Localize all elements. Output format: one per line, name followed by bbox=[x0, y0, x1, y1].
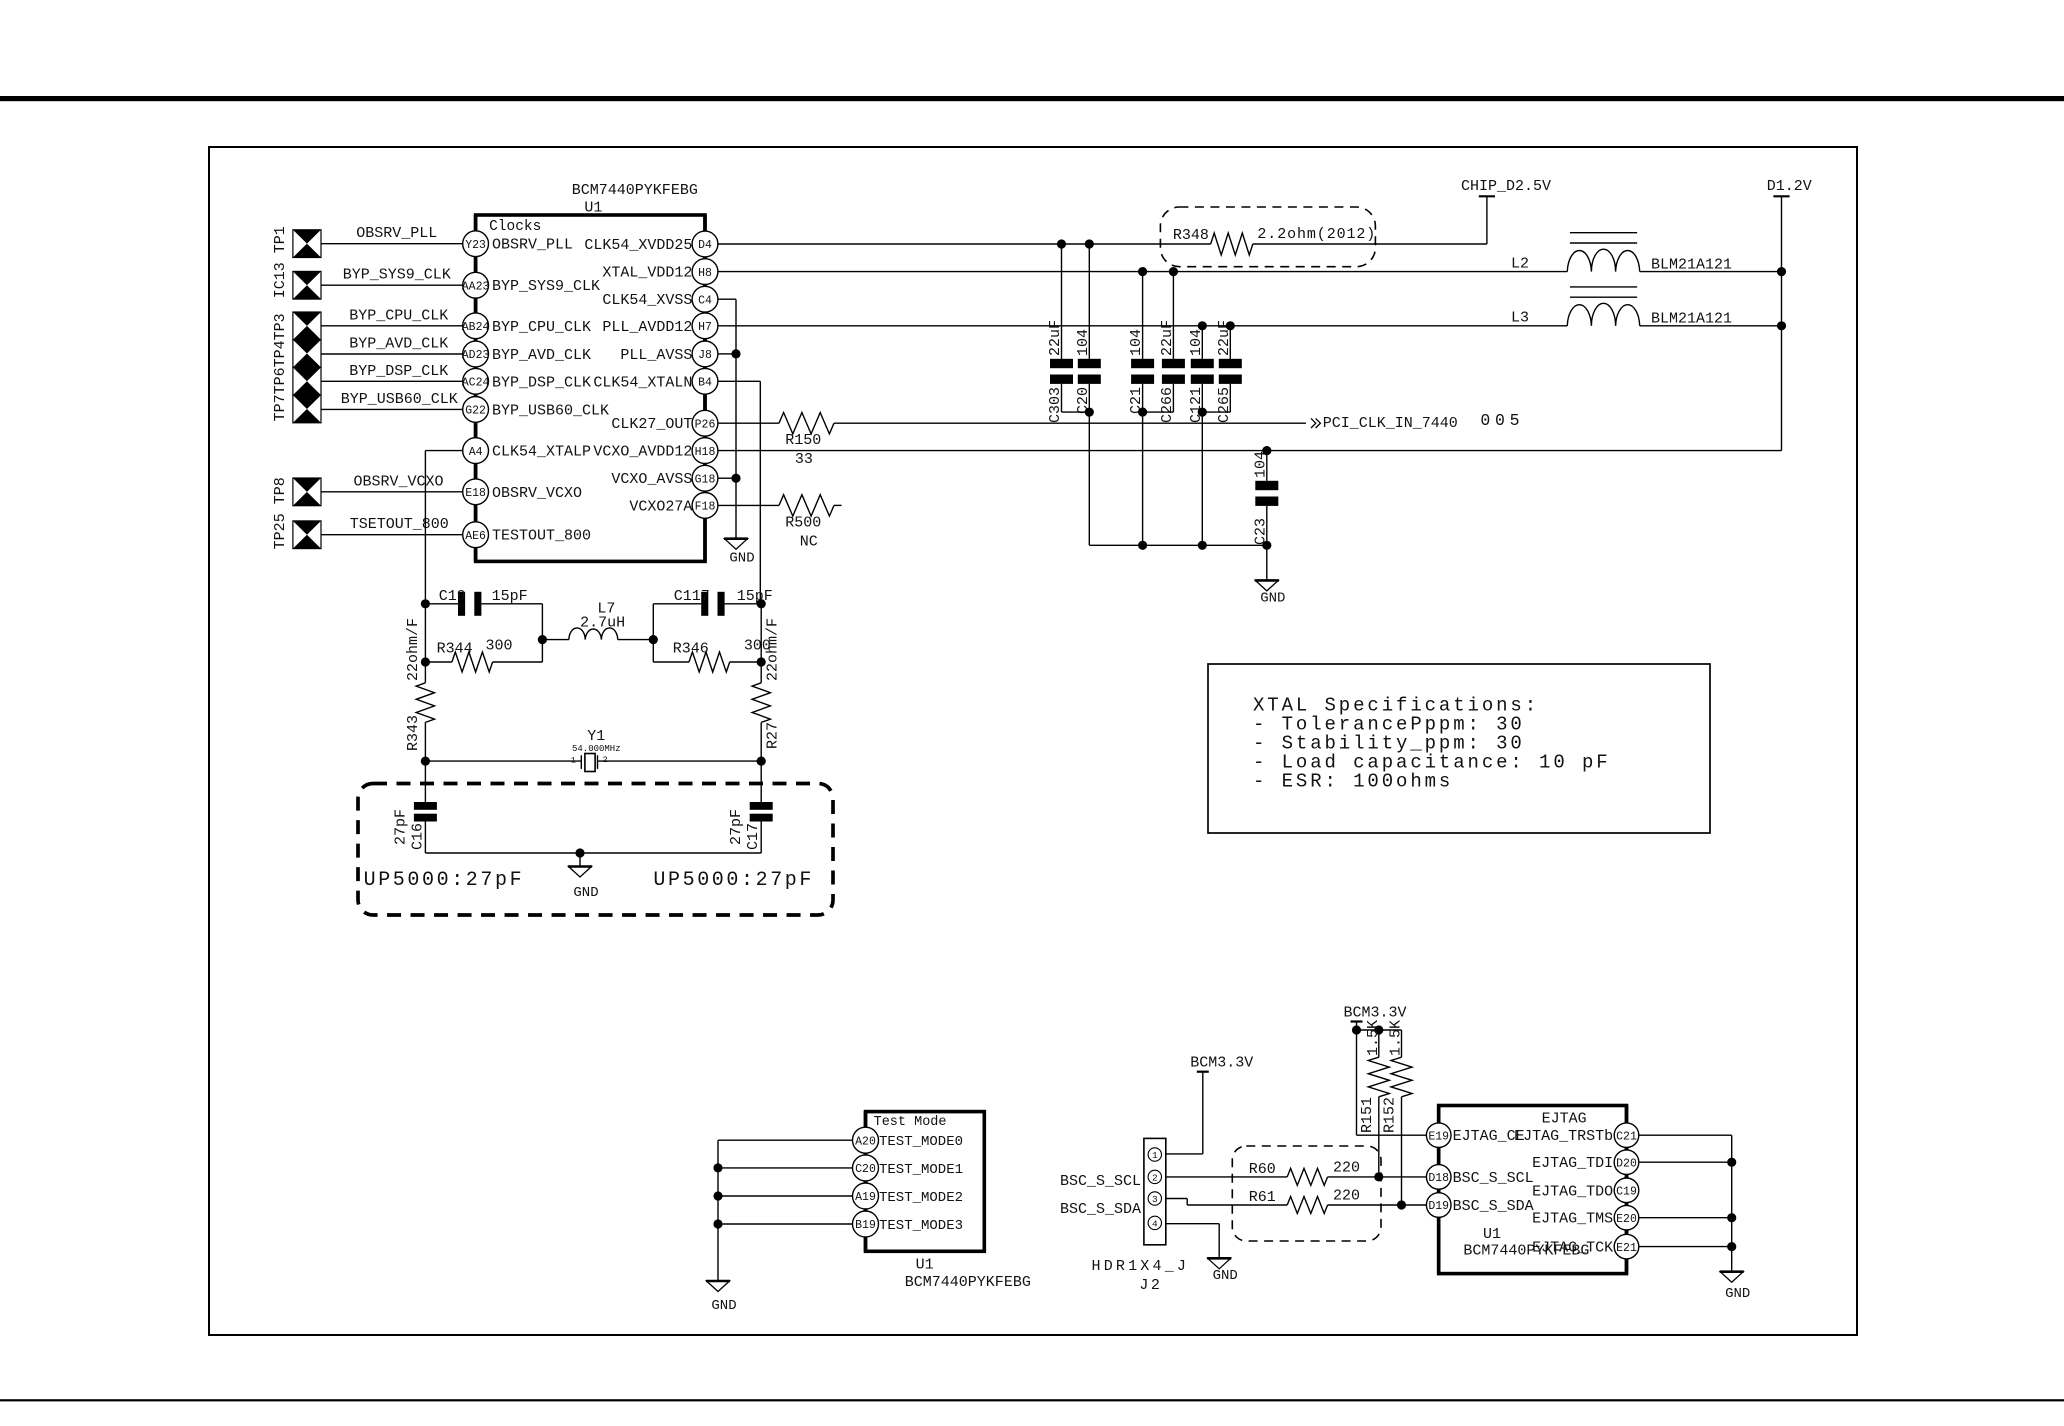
svg-text:1.5K: 1.5K bbox=[1388, 1020, 1405, 1056]
svg-text:E21: E21 bbox=[1616, 1242, 1637, 1255]
svg-text:VCXO_AVSS: VCXO_AVSS bbox=[611, 471, 692, 488]
svg-text:BYP_AVD_CLK: BYP_AVD_CLK bbox=[492, 347, 591, 364]
svg-text:104: 104 bbox=[1075, 329, 1092, 356]
wire R61 to D19 bbox=[1328, 1204, 1427, 1206]
wire BCM3.3V to E19 bbox=[1357, 1134, 1427, 1136]
junction C121/C265 bottoms bbox=[1198, 408, 1207, 417]
svg-text:005: 005 bbox=[1480, 411, 1524, 430]
svg-text:TP7TP6TP4TP3: TP7TP6TP4TP3 bbox=[272, 313, 289, 421]
svg-text:L3: L3 bbox=[1511, 310, 1529, 327]
U1 pin C21 EJTAG_TRSTb bbox=[1514, 1123, 1639, 1148]
ground symbol EJTAG bbox=[1720, 1272, 1751, 1302]
U1 pin A19 TEST_MODE2 bbox=[853, 1183, 964, 1209]
svg-text:BYP_CPU_CLK: BYP_CPU_CLK bbox=[492, 319, 591, 336]
U1 pin G18 VCXO_AVSS bbox=[611, 465, 718, 491]
svg-text:BCM3.3V: BCM3.3V bbox=[1190, 1055, 1253, 1072]
svg-text:OBSRV_VCXO: OBSRV_VCXO bbox=[492, 485, 582, 502]
U1 pin C20 TEST_MODE1 bbox=[853, 1155, 964, 1181]
U1 pin A20 TEST_MODE0 bbox=[853, 1127, 964, 1153]
J2 pin 3 bbox=[1148, 1192, 1161, 1205]
svg-text:GND: GND bbox=[573, 885, 598, 901]
svg-text:HDR1X4_J: HDR1X4_J bbox=[1092, 1258, 1190, 1275]
junction XTALP / R344 bbox=[421, 657, 430, 666]
svg-text:F18: F18 bbox=[695, 501, 716, 514]
wire net BYP_AVD_CLK bbox=[321, 336, 463, 355]
U1 pin AA23 BYP_SYS9_CLK bbox=[462, 272, 600, 298]
svg-text:D1.2V: D1.2V bbox=[1767, 178, 1812, 195]
junction TMS bbox=[1727, 1213, 1736, 1222]
wire PLL_AVDD12 rail bbox=[718, 325, 1567, 327]
svg-text:104: 104 bbox=[1128, 329, 1145, 356]
wire EJTAG_TMS bbox=[1639, 1217, 1732, 1219]
svg-text:TESTOUT_800: TESTOUT_800 bbox=[492, 528, 591, 545]
svg-text:CLK54_XTALP: CLK54_XTALP bbox=[492, 444, 591, 461]
svg-text:C19: C19 bbox=[439, 588, 466, 605]
wire net TSETOUT_800 bbox=[321, 516, 463, 535]
svg-text:R150: R150 bbox=[785, 432, 821, 449]
svg-text:J2: J2 bbox=[1139, 1277, 1162, 1294]
svg-text:H7: H7 bbox=[698, 321, 712, 334]
page bottom line bbox=[0, 1399, 2064, 1401]
svg-text:EJTAG_TMS: EJTAG_TMS bbox=[1532, 1211, 1613, 1228]
svg-text:300: 300 bbox=[486, 637, 513, 654]
svg-text:220: 220 bbox=[1333, 1160, 1360, 1177]
junction TM3 bbox=[713, 1219, 722, 1228]
svg-text:C117: C117 bbox=[674, 588, 710, 605]
testpoint TP6 bbox=[293, 367, 321, 395]
svg-text:A4: A4 bbox=[469, 446, 483, 459]
svg-text:22ohm/F: 22ohm/F bbox=[405, 618, 422, 681]
svg-text:UP5000:27pF: UP5000:27pF bbox=[364, 869, 525, 892]
resistor R348 2.2ohm(2012) bbox=[1160, 207, 1376, 267]
capacitor C121 104 bbox=[1188, 326, 1214, 423]
U1 pin D20 EJTAG_TDI bbox=[1532, 1150, 1639, 1175]
junction G18 VCXO_AVSS bbox=[731, 474, 740, 483]
svg-text:BLM21A121: BLM21A121 bbox=[1651, 311, 1732, 328]
wire R150 to PCI_CLK_IN_7440 bbox=[834, 422, 1306, 424]
U1 right edge segments bbox=[703, 215, 707, 561]
testpoint TP1 bbox=[293, 230, 321, 258]
svg-text:54.000MHz: 54.000MHz bbox=[572, 744, 621, 754]
U1 pin E20 EJTAG_TMS bbox=[1532, 1205, 1639, 1230]
junction TM1 bbox=[713, 1163, 722, 1172]
wire EJTAG_TRSTb to gnd rail bbox=[1639, 1134, 1732, 1136]
svg-text:AA23: AA23 bbox=[462, 280, 490, 293]
svg-text:GND: GND bbox=[711, 1298, 736, 1314]
U1 pin P26 CLK27_OUT bbox=[611, 410, 718, 436]
svg-text:B19: B19 bbox=[855, 1219, 876, 1232]
wire net OBSRV_PLL bbox=[321, 225, 463, 244]
wire VCXO_AVSS G18 stub bbox=[718, 477, 732, 479]
svg-text:E19: E19 bbox=[1428, 1130, 1449, 1143]
junction C23 top on VCXO_AVDD12 bbox=[1262, 446, 1271, 455]
svg-text:- ESR: 100ohms: - ESR: 100ohms bbox=[1253, 771, 1453, 793]
svg-text:4: 4 bbox=[1152, 1219, 1158, 1230]
svg-text:U1: U1 bbox=[916, 1257, 934, 1274]
junction C266 top bbox=[1169, 267, 1178, 276]
svg-text:TEST_MODE0: TEST_MODE0 bbox=[879, 1134, 963, 1150]
svg-text:EJTAG_TRSTb: EJTAG_TRSTb bbox=[1514, 1128, 1613, 1145]
svg-text:BYP_SYS9_CLK: BYP_SYS9_CLK bbox=[492, 278, 600, 295]
IC U1 BCM7440PYKFEBG (Clocks block) bbox=[476, 182, 705, 561]
svg-text:OBSRV_PLL: OBSRV_PLL bbox=[356, 225, 437, 242]
svg-text:BSC_S_SDA: BSC_S_SDA bbox=[1060, 1201, 1141, 1218]
svg-text:220: 220 bbox=[1333, 1188, 1360, 1205]
svg-text:R344: R344 bbox=[437, 641, 473, 658]
svg-text:CHIP_D2.5V: CHIP_D2.5V bbox=[1461, 178, 1551, 195]
svg-text:U1: U1 bbox=[1483, 1226, 1501, 1243]
svg-text:C4: C4 bbox=[698, 294, 712, 307]
junction C121 top bbox=[1198, 321, 1207, 330]
junction crystal gnd bbox=[575, 848, 584, 857]
U1 pin C4 CLK54_XVSS bbox=[602, 286, 718, 312]
wire CLK54_XTALP A4 branch bbox=[425, 451, 462, 683]
svg-text:22uF: 22uF bbox=[1159, 320, 1176, 356]
wire CLK54_XVSS C4 to GND rail bbox=[718, 299, 736, 539]
svg-text:EJTAG_TDI: EJTAG_TDI bbox=[1532, 1155, 1613, 1172]
U1 pin AB24 BYP_CPU_CLK bbox=[462, 313, 591, 339]
svg-text:C19: C19 bbox=[1616, 1186, 1637, 1199]
U1 pin C19 EJTAG_TDO bbox=[1532, 1178, 1639, 1203]
capacitor C19 15pF bbox=[425, 588, 542, 616]
svg-text:27pF: 27pF bbox=[728, 809, 745, 845]
svg-text:BSC_S_SDA: BSC_S_SDA bbox=[1453, 1198, 1534, 1215]
wire XTAL_VDD12 rail bbox=[718, 271, 1567, 273]
svg-text:R500: R500 bbox=[785, 514, 821, 531]
junction L3 out bbox=[1777, 321, 1786, 330]
svg-text:2.2ohm(2012): 2.2ohm(2012) bbox=[1257, 226, 1376, 243]
junction C303/C20 bottoms bbox=[1085, 408, 1094, 417]
U1 pin H7 PLL_AVDD12 bbox=[602, 313, 718, 339]
svg-text:BCM7440PYKFEBG: BCM7440PYKFEBG bbox=[905, 1274, 1031, 1291]
svg-text:BYP_DSP_CLK: BYP_DSP_CLK bbox=[492, 374, 591, 391]
wire J2 pin1 to BCM3.3V bbox=[1166, 1072, 1203, 1154]
resistor R151 1.5K bbox=[1359, 1020, 1390, 1177]
svg-text:GND: GND bbox=[1213, 1268, 1238, 1284]
svg-text:BSC_S_SCL: BSC_S_SCL bbox=[1060, 1173, 1141, 1190]
wire cap bank bottom links bbox=[1062, 412, 1231, 545]
svg-text:NC: NC bbox=[800, 533, 818, 550]
U1 pin B4 CLK54_XTALN bbox=[593, 368, 718, 394]
wire net BYP_USB60_CLK bbox=[321, 391, 463, 410]
wire C117/R346 to L7 node bbox=[652, 604, 654, 662]
junction Y1 right bbox=[757, 757, 766, 766]
svg-text:CLK27_OUT: CLK27_OUT bbox=[611, 416, 692, 433]
junction R152 / SDA bbox=[1397, 1200, 1406, 1209]
J2 pin 1 bbox=[1148, 1148, 1161, 1161]
resistor R346 300 bbox=[653, 637, 771, 672]
svg-text:OBSRV_VCXO: OBSRV_VCXO bbox=[354, 473, 444, 490]
off-page connector PCI_CLK_IN_7440 005 bbox=[1311, 411, 1524, 432]
dashed box UP5000 load caps bbox=[358, 784, 833, 916]
wire net OBSRV_VCXO bbox=[321, 473, 463, 492]
IC U1 EJTAG block bbox=[1439, 1106, 1627, 1274]
wire pullup top link bbox=[1357, 1029, 1402, 1031]
page top bar bbox=[0, 96, 2064, 101]
J2 pin 4 bbox=[1148, 1216, 1161, 1229]
svg-text:TP25 TP8: TP25 TP8 bbox=[272, 477, 289, 549]
wire VCXO_AVDD12 rail bbox=[718, 450, 1782, 452]
ground symbol J2 bbox=[1207, 1258, 1238, 1284]
svg-text:2.7uH: 2.7uH bbox=[580, 615, 625, 632]
U1 pin D4 CLK54_XVDD25 bbox=[584, 231, 718, 257]
svg-text:2: 2 bbox=[603, 755, 608, 765]
svg-text:R348: R348 bbox=[1173, 227, 1209, 244]
svg-text:1.5K: 1.5K bbox=[1365, 1020, 1382, 1056]
wire EJTAG gnd rail vertical bbox=[1731, 1135, 1733, 1272]
svg-text:CLK54_XVDD25: CLK54_XVDD25 bbox=[584, 237, 692, 254]
svg-text:GND: GND bbox=[1725, 1286, 1750, 1302]
junction C303 top bbox=[1057, 239, 1066, 248]
wire TEST_MODE2 net bbox=[718, 1195, 853, 1197]
U1 pin A4 CLK54_XTALP bbox=[463, 438, 591, 464]
U1 pin G22 BYP_USB60_CLK bbox=[463, 397, 609, 423]
svg-text:R346: R346 bbox=[673, 641, 709, 658]
junction TCK bbox=[1727, 1242, 1736, 1251]
U1 pin D19 BSC_S_SDA bbox=[1426, 1193, 1533, 1218]
svg-text:R151: R151 bbox=[1359, 1097, 1376, 1133]
svg-text:P26: P26 bbox=[695, 418, 716, 431]
svg-text:EJTAG_TCK: EJTAG_TCK bbox=[1532, 1240, 1613, 1257]
U1 left edge segments bbox=[474, 215, 478, 561]
EJTAG right edge segments bbox=[1625, 1106, 1629, 1274]
svg-text:PLL_AVDD12: PLL_AVDD12 bbox=[602, 319, 692, 336]
J2 pin 2 bbox=[1148, 1170, 1161, 1183]
svg-text:104: 104 bbox=[1188, 329, 1205, 356]
U1 pin E21 EJTAG_TCK bbox=[1532, 1234, 1639, 1259]
testpoint TP8 bbox=[293, 478, 321, 506]
svg-text:27pF: 27pF bbox=[392, 809, 409, 845]
wire PLL_AVSS J8 stub bbox=[718, 353, 732, 355]
svg-text:15pF: 15pF bbox=[737, 588, 773, 605]
connector J2 HDR1X4_J bbox=[1092, 1138, 1190, 1294]
wire CLK54_XTALN B4 to crystal bbox=[718, 381, 760, 604]
svg-text:Clocks: Clocks bbox=[489, 219, 541, 235]
svg-text:22ohm/F: 22ohm/F bbox=[764, 618, 781, 681]
wire test mode gnd vertical bbox=[717, 1140, 719, 1281]
U1 pin B19 TEST_MODE3 bbox=[853, 1211, 964, 1237]
svg-text:1: 1 bbox=[571, 756, 576, 766]
U1 pin F18 VCXO27A bbox=[629, 493, 718, 519]
junction C265 top bbox=[1226, 321, 1235, 330]
svg-text:1: 1 bbox=[1152, 1150, 1158, 1161]
U1 pin E19 EJTAG_CE bbox=[1426, 1123, 1524, 1148]
svg-text:GND: GND bbox=[1260, 591, 1285, 607]
svg-text:BCM7440PYKFEBG: BCM7440PYKFEBG bbox=[572, 182, 698, 199]
testpoint TP4 bbox=[293, 340, 321, 368]
wire EJTAG_TCK bbox=[1639, 1246, 1732, 1248]
U1 pin J8 PLL_AVSS bbox=[620, 341, 718, 367]
wire net BYP_DSP_CLK bbox=[321, 363, 463, 382]
junction L7 left bbox=[538, 635, 547, 644]
resistor R60 220 bbox=[1249, 1160, 1360, 1186]
svg-text:BYP_USB60_CLK: BYP_USB60_CLK bbox=[492, 402, 609, 419]
power flag BCM3.3V at J2 bbox=[1190, 1055, 1253, 1072]
svg-text:TEST_MODE3: TEST_MODE3 bbox=[879, 1218, 963, 1234]
dashed box I2C series resistors bbox=[1232, 1146, 1381, 1241]
svg-text:AD23: AD23 bbox=[462, 349, 490, 362]
wire R348 to CHIP_D2.5V bbox=[1253, 243, 1487, 245]
svg-text:R152: R152 bbox=[1382, 1097, 1399, 1133]
capacitor C16 27pF bbox=[392, 802, 437, 853]
svg-text:TSETOUT_800: TSETOUT_800 bbox=[350, 516, 449, 533]
svg-text:U1: U1 bbox=[584, 200, 602, 217]
junction J8 PLL_AVSS bbox=[731, 349, 740, 358]
junction pullup A bbox=[1352, 1025, 1361, 1034]
svg-text:G18: G18 bbox=[695, 473, 716, 486]
wire cap bank ground bus bbox=[1089, 544, 1267, 546]
svg-text:C23: C23 bbox=[1252, 518, 1269, 545]
svg-text:R60: R60 bbox=[1249, 1161, 1276, 1178]
svg-text:R27: R27 bbox=[764, 722, 781, 749]
svg-text:R343: R343 bbox=[405, 715, 422, 751]
svg-text:3: 3 bbox=[1152, 1194, 1158, 1205]
svg-text:D18: D18 bbox=[1428, 1172, 1449, 1185]
junction bus C23 branch bbox=[1262, 541, 1271, 550]
junction Y1 left bbox=[421, 757, 430, 766]
svg-text:EJTAG_TDO: EJTAG_TDO bbox=[1532, 1183, 1613, 1200]
wire EJTAG_TDI bbox=[1639, 1161, 1732, 1163]
capacitor C20 104 bbox=[1075, 244, 1101, 414]
junction C20 top bbox=[1085, 239, 1094, 248]
U1 pin D18 BSC_S_SCL bbox=[1426, 1165, 1533, 1190]
svg-text:BYP_AVD_CLK: BYP_AVD_CLK bbox=[349, 336, 448, 353]
svg-text:AE6: AE6 bbox=[465, 530, 486, 543]
U1 pin Y23 OBSRV_PLL bbox=[463, 231, 573, 257]
power flag BCM3.3V pullups bbox=[1344, 1005, 1407, 1136]
svg-text:BYP_SYS9_CLK: BYP_SYS9_CLK bbox=[343, 267, 451, 284]
svg-text:VCXO_AVDD12: VCXO_AVDD12 bbox=[593, 444, 692, 461]
svg-text:C266: C266 bbox=[1159, 387, 1176, 423]
wire J2 pin4 to GND bbox=[1166, 1224, 1219, 1259]
svg-text:2: 2 bbox=[1152, 1173, 1158, 1184]
resistor R343 22ohm/F bbox=[405, 618, 435, 802]
wire L3 to D1.2V rail bbox=[1640, 325, 1782, 327]
wire TEST_MODE0 net bbox=[718, 1139, 853, 1141]
resistor R500 NC bbox=[779, 495, 842, 551]
resistor R344 300 bbox=[425, 637, 542, 672]
svg-text:IC13 TP1: IC13 TP1 bbox=[272, 226, 289, 298]
wire BSC_S_SCL to R60 bbox=[1166, 1176, 1287, 1178]
svg-text:BYP_CPU_CLK: BYP_CPU_CLK bbox=[349, 307, 448, 324]
junction XTALN / C117 bbox=[757, 599, 766, 608]
junction C21/C266 bottoms bbox=[1138, 408, 1147, 417]
svg-text:GND: GND bbox=[729, 550, 754, 566]
svg-text:VCXO27A: VCXO27A bbox=[629, 498, 692, 515]
U1 pin E18 OBSRV_VCXO bbox=[463, 479, 582, 505]
svg-text:E20: E20 bbox=[1616, 1213, 1637, 1226]
junction XTALP / C19 bbox=[421, 599, 430, 608]
wire crystal ground bus bbox=[425, 852, 761, 854]
crystal Y1 54.000MHz bbox=[425, 728, 761, 771]
junction pullup B bbox=[1374, 1025, 1383, 1034]
U1 pin H18 VCXO_AVDD12 bbox=[593, 438, 718, 464]
capacitor C17 27pF bbox=[728, 802, 773, 853]
junction bus C121 branch bbox=[1198, 541, 1207, 550]
svg-text:D20: D20 bbox=[1616, 1157, 1637, 1170]
wire C19/R344 to L7 node bbox=[541, 604, 543, 662]
svg-text:OBSRV_PLL: OBSRV_PLL bbox=[492, 237, 573, 254]
svg-text:BYP_DSP_CLK: BYP_DSP_CLK bbox=[349, 363, 448, 380]
junction C21 top bbox=[1138, 267, 1147, 276]
junction L7 right bbox=[649, 635, 658, 644]
svg-text:EJTAG: EJTAG bbox=[1542, 1111, 1587, 1128]
svg-text:E18: E18 bbox=[465, 487, 486, 500]
svg-text:G22: G22 bbox=[465, 405, 486, 418]
resistor R150 33 bbox=[779, 413, 834, 469]
svg-text:J8: J8 bbox=[698, 349, 712, 362]
wire R60 to D18 bbox=[1328, 1176, 1427, 1178]
IC U1 Test Mode block bbox=[866, 1112, 1031, 1291]
wire BSC_S_SDA to R61 bbox=[1166, 1199, 1287, 1206]
wire L2 to D1.2V rail bbox=[1640, 271, 1782, 273]
svg-text:Y1: Y1 bbox=[587, 728, 605, 745]
svg-text:XTAL_VDD12: XTAL_VDD12 bbox=[602, 265, 692, 282]
ground symbol test mode bbox=[706, 1281, 737, 1314]
junction R151 / SCL bbox=[1374, 1172, 1383, 1181]
svg-text:B4: B4 bbox=[698, 377, 712, 390]
capacitor C117 15pF bbox=[653, 588, 773, 616]
svg-text:Test Mode: Test Mode bbox=[874, 1115, 947, 1130]
svg-text:UP5000:27pF: UP5000:27pF bbox=[653, 869, 814, 892]
svg-text:PCI_CLK_IN_7440: PCI_CLK_IN_7440 bbox=[1323, 415, 1458, 432]
svg-text:D4: D4 bbox=[698, 239, 712, 252]
wire TEST_MODE1 net bbox=[718, 1167, 853, 1169]
power flag CHIP_D2.5V bbox=[1461, 178, 1551, 244]
testpoint reference labels bbox=[272, 226, 289, 549]
resistor R61 220 bbox=[1249, 1188, 1360, 1214]
svg-text:TEST_MODE1: TEST_MODE1 bbox=[879, 1162, 963, 1178]
svg-text:Y23: Y23 bbox=[465, 239, 486, 252]
Test Mode left edge segments bbox=[864, 1112, 868, 1252]
svg-text:R61: R61 bbox=[1249, 1189, 1276, 1206]
junction bus C21 branch bbox=[1138, 541, 1147, 550]
U1 pin H8 XTAL_VDD12 bbox=[602, 259, 718, 285]
svg-text:22uF: 22uF bbox=[1047, 320, 1064, 356]
svg-text:A19: A19 bbox=[855, 1191, 876, 1204]
wire CLK27_OUT to R150 bbox=[718, 422, 779, 424]
ground symbol crystal bbox=[568, 853, 599, 901]
svg-text:CLK54_XVSS: CLK54_XVSS bbox=[602, 292, 692, 309]
wire net BYP_CPU_CLK bbox=[321, 307, 463, 326]
svg-text:A20: A20 bbox=[855, 1135, 876, 1148]
svg-text:33: 33 bbox=[795, 451, 813, 468]
testpoint TP3 bbox=[293, 312, 321, 340]
svg-text:CLK54_XTALN: CLK54_XTALN bbox=[593, 374, 692, 391]
svg-text:H18: H18 bbox=[695, 446, 716, 459]
ground symbol cap bank bbox=[1255, 545, 1286, 606]
testpoint IC13 bbox=[293, 271, 321, 299]
svg-text:AC24: AC24 bbox=[462, 377, 490, 390]
capacitor C265 22uF bbox=[1216, 320, 1242, 423]
testpoint TP25 bbox=[293, 521, 321, 549]
power flag D1.2V bbox=[1767, 178, 1812, 451]
capacitor C23 104 bbox=[1252, 451, 1278, 546]
resistor R152 1.5K bbox=[1382, 1020, 1413, 1205]
wire VCXO27A to R500 bbox=[718, 504, 779, 506]
U1 pin AE6 TESTOUT_800 bbox=[463, 522, 591, 548]
ferrite bead L2 BLM21A121 bbox=[1511, 233, 1732, 274]
testpoint TP7 bbox=[293, 395, 321, 423]
wire net BYP_SYS9_CLK bbox=[321, 267, 463, 286]
capacitor C266 22uF bbox=[1159, 272, 1185, 423]
resistor R27 22ohm/F bbox=[752, 604, 781, 802]
ferrite bead L3 BLM21A121 bbox=[1511, 287, 1732, 328]
junction L2 out bbox=[1777, 267, 1786, 276]
svg-text:C303: C303 bbox=[1047, 387, 1064, 423]
svg-text:AB24: AB24 bbox=[462, 321, 490, 334]
capacitor C21 104 bbox=[1128, 272, 1154, 414]
